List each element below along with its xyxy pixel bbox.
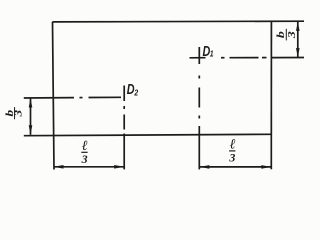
dimension line b/3 left bbox=[30, 98, 32, 135]
arrowhead b/3 right dim, top arrow bbox=[296, 22, 300, 31]
svg-text:3: 3 bbox=[81, 152, 88, 166]
arrowhead b/3 left dim, bottom arrow bbox=[29, 125, 33, 134]
wire bottom edge of plate (with left extension) bbox=[24, 134, 272, 135]
dimension line l/3 bottom-left bbox=[54, 166, 125, 168]
node D1 centerline vertical (dash-dot, extends below bottom edge) bbox=[198, 47, 200, 169]
arrowhead l/3 left dim, left arrow bbox=[54, 165, 64, 169]
label D2 bbox=[127, 80, 139, 98]
arrowhead l/3 left dim, right arrow bbox=[114, 165, 124, 169]
node D1 centerline horizontal (dash-dot, extends right past edge) bbox=[190, 57, 305, 59]
label fraction l/3 bottom-left bbox=[81, 139, 88, 166]
arrowhead b/3 right dim, bottom arrow bbox=[296, 48, 300, 57]
arrowhead b/3 left dim, top arrow bbox=[29, 98, 33, 107]
wire right edge of plate (extends below as extension line) bbox=[270, 21, 272, 169]
svg-text:3: 3 bbox=[12, 110, 25, 118]
node D2 centerline vertical (dash-dot, extends below bottom edge) bbox=[123, 86, 125, 170]
label fraction l/3 bottom-right bbox=[228, 138, 235, 165]
wire left edge of plate (extends below as extension line) bbox=[53, 22, 55, 170]
label fraction b/3 right (rotated) bbox=[274, 29, 297, 41]
label D1 bbox=[203, 42, 214, 59]
label fraction b/3 left (rotated) bbox=[3, 107, 24, 119]
wire top edge of plate (with right extension) bbox=[52, 20, 304, 23]
arrowhead l/3 right dim, right arrow bbox=[261, 165, 271, 169]
svg-text:3: 3 bbox=[285, 31, 297, 39]
svg-text:3: 3 bbox=[228, 151, 235, 165]
dimension line l/3 bottom-right bbox=[199, 166, 271, 168]
svg-text:1: 1 bbox=[210, 49, 214, 59]
svg-text:2: 2 bbox=[134, 88, 139, 98]
node D2 centerline horizontal (dash-dot, extends left past edge) bbox=[24, 96, 121, 99]
arrowhead l/3 right dim, left arrow bbox=[200, 165, 210, 169]
dimension line b/3 right bbox=[297, 21, 299, 57]
